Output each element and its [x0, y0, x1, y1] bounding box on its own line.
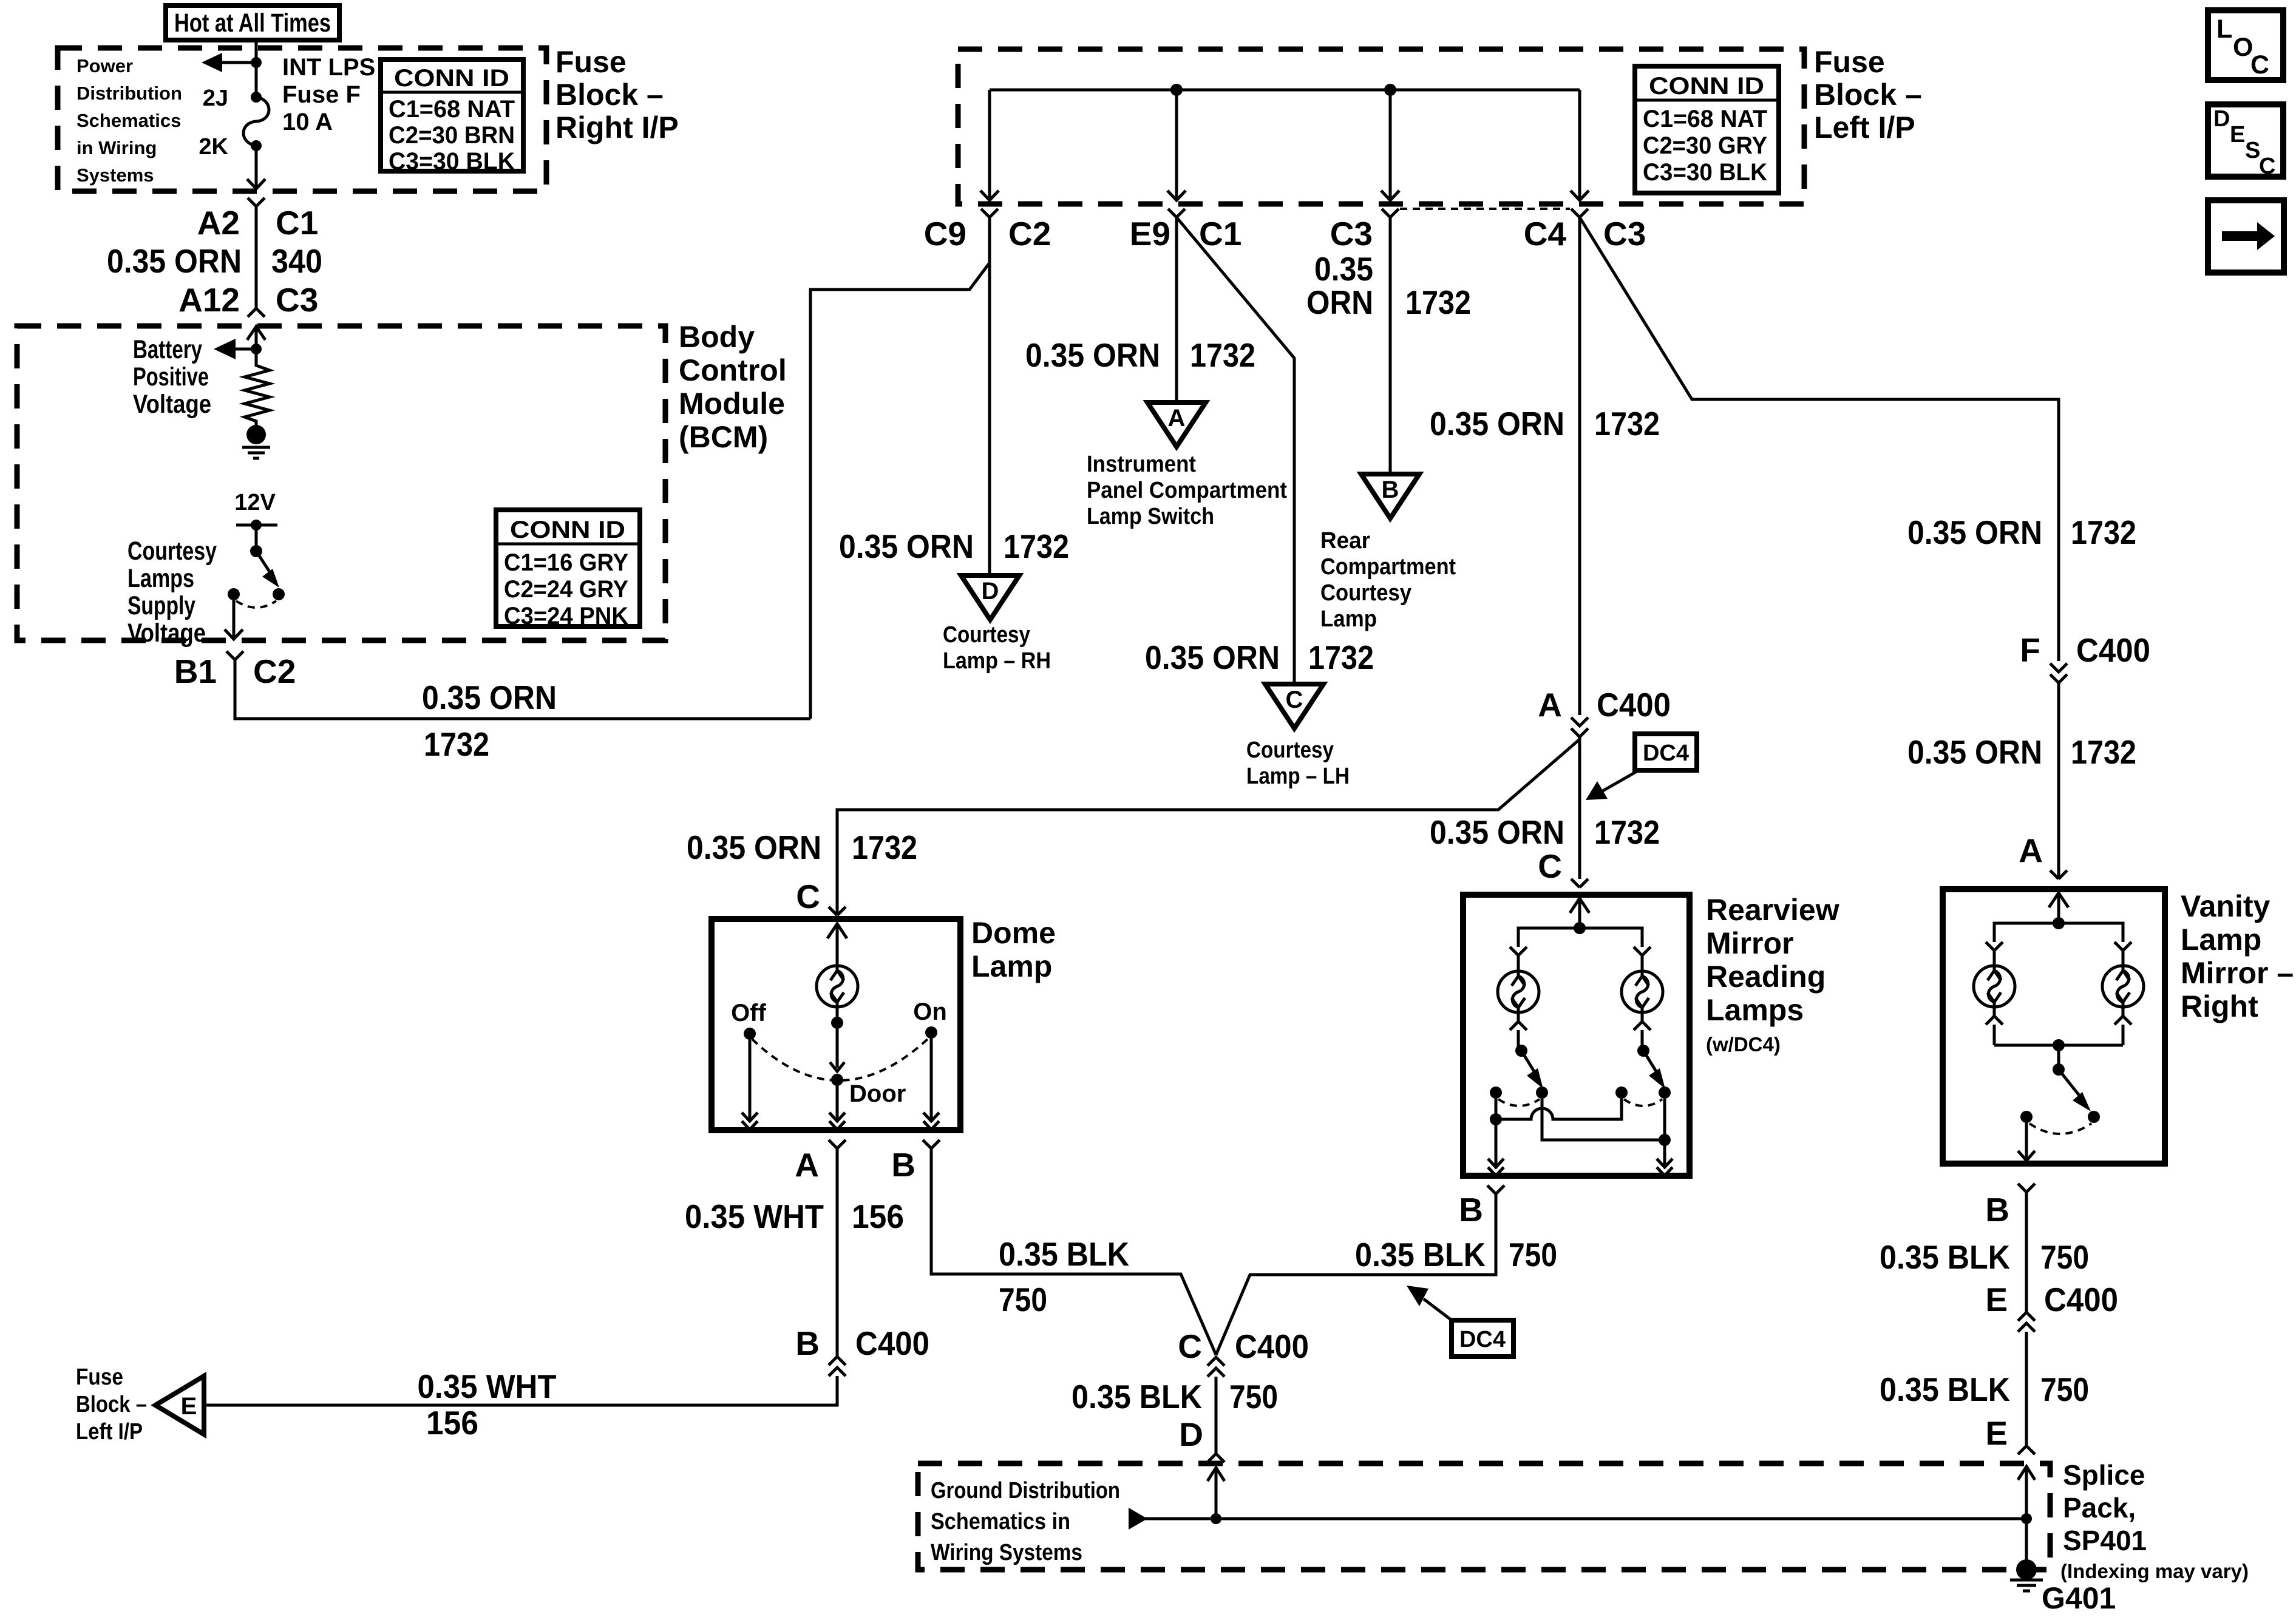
wire: arrowhead entering BCM [247, 327, 265, 349]
connector fork into dome lamp [829, 907, 846, 915]
Vanity Lamp Mirror Right box [1943, 889, 2165, 1164]
wire: fuse output down to box edge with arrowhead [247, 146, 265, 189]
wire: vanity B down to E C400 [2025, 1192, 2028, 1312]
svg-text:Panel Compartment: Panel Compartment [1087, 478, 1287, 503]
svg-text:Distribution: Distribution [76, 83, 182, 104]
svg-text:C2=24 GRY: C2=24 GRY [504, 576, 628, 603]
connector C3 pin C4: fork [1571, 209, 1588, 217]
lamp bulb (vanity left) [1974, 966, 2015, 1007]
svg-text:750: 750 [999, 1281, 1047, 1318]
node: junction E wire to ground bus [2021, 1513, 2032, 1524]
lamp bulb (rearview left) [1498, 971, 1539, 1012]
connector fork left bulb [1986, 942, 2003, 951]
wire: F C400 down to vanity A [2057, 683, 2060, 879]
svg-text:Wiring Systems: Wiring Systems [931, 1540, 1082, 1565]
svg-text:C: C [2259, 154, 2275, 179]
triangle connector E (fuse block left) [155, 1376, 204, 1434]
wire: ground bus with source arrow [1129, 1508, 2026, 1530]
svg-text:Lamp – LH: Lamp – LH [1246, 764, 1350, 789]
connector fork pin B below rearview [1487, 1185, 1504, 1194]
connector C400 pin C: double chevron up [1207, 1357, 1224, 1377]
wire: Door contact to box edge with double chevron [829, 1080, 845, 1130]
svg-text:750: 750 [1229, 1378, 1278, 1415]
wire: below A C400 down to rearview C [1578, 737, 1581, 879]
svg-text:0.35 BLK: 0.35 BLK [1880, 1371, 2010, 1408]
svg-text:B: B [891, 1146, 915, 1184]
svg-text:10 A: 10 A [282, 109, 333, 135]
node: bus junction at C3 drop [1384, 84, 1396, 96]
Rearview Mirror Reading Lamps box [1463, 895, 1690, 1176]
svg-text:0.35 ORN: 0.35 ORN [839, 527, 974, 565]
label: Splice Pack SP401 [2060, 1459, 2249, 1582]
double chevron at box edge (left B) [1488, 1159, 1504, 1176]
svg-text:Compartment: Compartment [1320, 554, 1456, 580]
switch contacts (right) [1615, 1086, 1628, 1099]
svg-text:C: C [1538, 847, 1562, 885]
DC4 callout box (upper) [1586, 734, 1697, 800]
node: Off contact [744, 1028, 756, 1040]
svg-text:Module: Module [679, 387, 785, 421]
connector fork below right bulb [1634, 1012, 1651, 1051]
svg-text:C1=16 GRY: C1=16 GRY [504, 549, 628, 576]
wire: drop to C9 with arrowhead [980, 90, 999, 200]
wire: branch diagonal to dome lamp feed [837, 739, 1580, 915]
connector fork left lamp [1510, 947, 1527, 955]
wire: drop to E9 with arrowhead [1167, 90, 1186, 200]
svg-text:Hot at All Times: Hot at All Times [174, 8, 331, 38]
connector fork below right bulb [2114, 1007, 2131, 1045]
wire: branch arrow to Power Distribution Schematics [202, 53, 256, 72]
wire: down to switch pole [2057, 1045, 2060, 1070]
svg-text:Control: Control [679, 353, 787, 387]
svg-text:E9: E9 [1130, 215, 1170, 253]
dashed travel arc [236, 601, 276, 608]
node: junction D wire to ground bus [1211, 1513, 1221, 1524]
svg-text:Courtesy: Courtesy [1246, 737, 1334, 763]
node: junction on B wire [1490, 1113, 1502, 1125]
svg-text:C400: C400 [1597, 686, 1671, 724]
label: Fuse Block - Left I/P [1814, 45, 1922, 144]
connector C3 pin A12: fork above BCM [248, 308, 265, 317]
connector fork right lamp [1634, 947, 1651, 955]
svg-text:E: E [1985, 1281, 2008, 1318]
svg-text:ORN: ORN [1306, 283, 1373, 321]
svg-text:CONN ID: CONN ID [394, 65, 509, 92]
svg-text:Block –: Block – [1814, 78, 1922, 112]
note: Power Distribution Schematics in Wiring Systems [76, 55, 182, 186]
svg-text:1732: 1732 [1308, 639, 1374, 676]
svg-text:D: D [1179, 1415, 1203, 1453]
wire: from Hot at All Times down into fuse block [255, 40, 258, 97]
Fuse Block Right I/P dashed box [58, 48, 546, 191]
svg-text:Power: Power [76, 55, 133, 76]
svg-text:1732: 1732 [2071, 514, 2136, 551]
svg-text:12V: 12V [234, 490, 276, 515]
svg-text:Pack,: Pack, [2063, 1492, 2136, 1524]
svg-text:750: 750 [1509, 1236, 1557, 1273]
svg-text:340: 340 [271, 242, 322, 280]
connector fork pin A below dome [829, 1140, 846, 1148]
dashed travel arc [1624, 1099, 1662, 1106]
svg-text:Left I/P: Left I/P [1814, 110, 1915, 144]
triangle connector C [1265, 684, 1323, 728]
thin dashed connector body line between C3 and C4 [1400, 208, 1570, 210]
switch arm with arrowhead [1521, 1051, 1543, 1089]
svg-text:B: B [1459, 1191, 1483, 1229]
svg-text:Mirror –: Mirror – [2181, 956, 2294, 990]
svg-text:DC4: DC4 [1643, 741, 1689, 766]
svg-text:0.35 ORN: 0.35 ORN [1430, 813, 1564, 851]
svg-text:Rearview: Rearview [1706, 893, 1839, 927]
wire: bulb to junction [836, 1007, 839, 1068]
triangle connector D [961, 575, 1019, 620]
svg-text:D: D [2213, 106, 2230, 132]
note: Instrument Panel Compartment Lamp Switch [1087, 452, 1287, 529]
wire: into splice pack with arrowhead [2018, 1466, 2035, 1569]
svg-text:INT LPS: INT LPS [282, 54, 375, 81]
connector pin C3: fork [1382, 209, 1399, 217]
svg-text:A: A [1168, 405, 1186, 432]
node: Door contact [831, 1074, 843, 1086]
svg-text:Schematics in: Schematics in [931, 1509, 1070, 1534]
svg-text:0.35 ORN: 0.35 ORN [422, 679, 557, 716]
wire stub [2122, 951, 2125, 966]
arrowhead to door contact [830, 1062, 844, 1071]
wire: right contact down to box edge [1663, 1099, 1666, 1168]
svg-text:A: A [2019, 832, 2043, 869]
svg-text:C: C [1286, 686, 1303, 713]
connector fork pin D at ground box [1207, 1454, 1224, 1462]
connector fork below left bulb [1986, 1007, 2003, 1045]
wire: C9 down to triangle D [988, 217, 991, 573]
svg-text:Block –: Block – [76, 1392, 147, 1417]
wire stub [1993, 951, 1996, 966]
wire: down and left to fuse block E triangle [205, 1376, 837, 1405]
svg-text:B1: B1 [174, 653, 217, 690]
svg-text:Schematics: Schematics [76, 110, 181, 131]
note: Courtesy Lamps Supply Voltage [127, 537, 217, 648]
wire: switch output down with arrowhead to BCM edge [225, 600, 243, 639]
svg-text:Off: Off [731, 1000, 766, 1026]
double chevron at box edge (right) [1657, 1159, 1673, 1176]
svg-text:A12: A12 [178, 281, 240, 319]
svg-text:SP401: SP401 [2063, 1525, 2147, 1556]
Body Control Module dashed box [17, 326, 665, 640]
svg-text:Fuse: Fuse [76, 1364, 123, 1390]
svg-text:C3: C3 [1603, 215, 1646, 253]
wire: bulbs common bottom [1994, 1044, 2123, 1047]
note: Battery Positive Voltage [133, 335, 211, 419]
svg-text:G401: G401 [2042, 1581, 2116, 1615]
wire: entering dome lamp with arrowhead [827, 924, 847, 966]
note: Courtesy Lamp - LH [1246, 737, 1350, 789]
lamp bulb (dome) [817, 966, 858, 1007]
svg-text:Dome: Dome [971, 916, 1056, 950]
wire: split to both lamp branches [1518, 928, 1642, 947]
svg-text:C9: C9 [924, 215, 966, 253]
wire: riser up to C9 connector [810, 263, 990, 719]
svg-text:B: B [1382, 476, 1399, 503]
connector fork pin E at splice pack [2018, 1446, 2035, 1454]
svg-text:CONN ID: CONN ID [510, 517, 625, 543]
dashed travel arc [2029, 1124, 2091, 1134]
svg-text:Courtesy: Courtesy [127, 537, 217, 566]
connector fork into rearview box [1571, 879, 1588, 887]
wire: B1 down and right to BCM riser [235, 660, 810, 719]
svg-text:(BCM): (BCM) [679, 420, 768, 454]
dashed selector arc Off-Door-On [752, 1038, 929, 1080]
svg-text:Voltage: Voltage [127, 619, 206, 648]
svg-text:0.35 WHT: 0.35 WHT [685, 1198, 824, 1235]
resistor (BCM internal pull-up) [245, 349, 270, 425]
svg-text:C3=30 BLK: C3=30 BLK [389, 148, 515, 175]
wire: into ground box with arrowhead [1207, 1468, 1224, 1517]
svg-text:Right: Right [2181, 989, 2258, 1023]
svg-text:B: B [795, 1324, 820, 1362]
svg-text:Fuse: Fuse [1814, 45, 1885, 79]
svg-text:1732: 1732 [2071, 733, 2136, 771]
svg-text:Lamps: Lamps [1706, 993, 1804, 1027]
12V supply bar [236, 520, 277, 551]
svg-text:(Indexing may vary): (Indexing may vary) [2060, 1560, 2249, 1582]
wire: A2 to A12 connector wire [255, 206, 258, 308]
svg-text:C: C [1178, 1327, 1202, 1365]
svg-text:D: D [982, 578, 999, 605]
CONN ID table (BCM) [496, 510, 640, 629]
svg-text:0.35 ORN: 0.35 ORN [687, 829, 821, 866]
svg-text:Positive: Positive [133, 362, 209, 392]
note: Courtesy Lamp - RH [943, 622, 1051, 674]
svg-text:1732: 1732 [1190, 336, 1255, 374]
svg-text:Courtesy: Courtesy [1320, 580, 1411, 606]
node: junction below bulb [831, 1017, 843, 1029]
svg-text:0.35 ORN: 0.35 ORN [1145, 639, 1280, 676]
wire: C3 down to triangle B [1389, 217, 1392, 472]
wire: On contact to box edge with double chevron [923, 1039, 939, 1130]
svg-text:C3=30 BLK: C3=30 BLK [1643, 159, 1767, 186]
svg-text:C2: C2 [253, 653, 296, 690]
connector fork pin B below dome [923, 1140, 940, 1148]
wire: entering vanity box with arrowhead [2049, 893, 2068, 923]
svg-text:0.35 BLK: 0.35 BLK [1880, 1238, 2010, 1276]
svg-text:0.35 BLK: 0.35 BLK [1355, 1236, 1486, 1273]
svg-text:0.35 ORN: 0.35 ORN [1025, 336, 1160, 374]
svg-text:Lamp: Lamp [971, 949, 1052, 983]
svg-text:Body: Body [679, 320, 755, 354]
svg-text:E: E [181, 1393, 197, 1420]
DESC legend box [2208, 104, 2283, 179]
fuse F INT LPS symbol [243, 92, 269, 151]
label: Fuse Block - Right I/P [555, 45, 679, 144]
svg-text:C3: C3 [1330, 215, 1373, 253]
svg-text:Right I/P: Right I/P [555, 110, 679, 144]
lamp bulb (rearview right) [1622, 971, 1663, 1012]
note: Fuse Block - Left I/P [76, 1364, 147, 1445]
svg-text:1732: 1732 [1594, 405, 1660, 442]
svg-text:Lamp Switch: Lamp Switch [1087, 504, 1214, 529]
svg-text:Instrument: Instrument [1087, 452, 1196, 477]
svg-text:Courtesy: Courtesy [943, 622, 1030, 648]
switch pole (vanity) [2053, 1063, 2065, 1076]
svg-text:Reading: Reading [1706, 960, 1826, 994]
connector C400 pin B: double chevron up [829, 1357, 846, 1376]
svg-text:C: C [2250, 50, 2269, 80]
switch arm with arrowhead [256, 551, 279, 588]
svg-text:C3: C3 [276, 281, 318, 319]
svg-text:A: A [795, 1146, 819, 1184]
svg-text:C1=68 NAT: C1=68 NAT [1643, 106, 1767, 132]
svg-text:Door: Door [849, 1080, 906, 1107]
svg-text:2K: 2K [199, 134, 228, 160]
svg-text:Block –: Block – [555, 78, 664, 112]
svg-text:156: 156 [852, 1198, 904, 1235]
svg-text:E: E [2230, 122, 2245, 147]
svg-text:156: 156 [426, 1404, 478, 1442]
svg-text:Lamp – RH: Lamp – RH [943, 648, 1051, 674]
svg-text:C2=30 GRY: C2=30 GRY [1643, 132, 1767, 159]
Dome Lamp box [712, 919, 960, 1130]
svg-text:Vanity: Vanity [2181, 889, 2270, 923]
svg-text:Ground Distribution: Ground Distribution [931, 1478, 1120, 1503]
wire: left contact down with arrow to box edge [2018, 1123, 2035, 1161]
wire: dome B down then right [931, 1148, 1216, 1355]
switch arm with arrowhead [2059, 1070, 2091, 1111]
wire: left contact down to junction [1495, 1093, 1498, 1168]
connector C1 pin E9: fork [1168, 209, 1185, 217]
svg-text:0.35 BLK: 0.35 BLK [999, 1235, 1129, 1273]
label: Body Control Module (BCM) [679, 320, 787, 454]
switch contacts (vanity) [2020, 1111, 2033, 1123]
svg-text:C4: C4 [1524, 215, 1567, 253]
connector fork into vanity box [2050, 870, 2067, 879]
switch (courtesy lamps) pole [250, 545, 262, 557]
node: On contact [925, 1026, 937, 1039]
svg-text:A2: A2 [197, 204, 240, 242]
wire: C3 diagonal over to vanity feed [1580, 217, 2059, 661]
svg-text:C400: C400 [2044, 1281, 2118, 1318]
svg-text:Rear: Rear [1320, 528, 1370, 554]
svg-text:0.35 ORN: 0.35 ORN [1907, 514, 2042, 551]
svg-text:B: B [1985, 1191, 2009, 1229]
ground symbol [242, 447, 270, 458]
svg-text:On: On [913, 998, 947, 1025]
ground dot inside BCM [246, 425, 266, 444]
svg-text:(w/DC4): (w/DC4) [1706, 1033, 1781, 1056]
svg-text:1732: 1732 [1004, 527, 1069, 565]
node: bus junction at E9 drop [1170, 84, 1183, 96]
wire: arrow to Battery Positive Voltage [214, 339, 256, 359]
svg-text:CONN ID: CONN ID [1649, 73, 1764, 100]
svg-text:750: 750 [2040, 1238, 2089, 1276]
svg-text:Systems: Systems [76, 164, 154, 186]
wire: fuse block bus [990, 89, 1580, 92]
connector fork below left bulb [1510, 1012, 1527, 1051]
svg-text:C400: C400 [1235, 1327, 1309, 1365]
wire: E C400 down to splice pack [2025, 1332, 2028, 1446]
switch arm with arrowhead [1643, 1051, 1665, 1089]
node: split junction [1574, 922, 1586, 934]
wire: entering rearview box with arrowhead [1570, 898, 1589, 928]
svg-text:750: 750 [2040, 1371, 2089, 1408]
connector fork pin B below vanity [2018, 1184, 2035, 1192]
connector C400 pin F: double chevron [2050, 663, 2067, 683]
splice ground G401 [2010, 1559, 2043, 1591]
label: Dome Lamp [971, 916, 1056, 983]
wire: left arm contact down and right [1542, 1099, 1665, 1140]
dashed travel arc [1498, 1099, 1540, 1106]
svg-text:Supply: Supply [127, 591, 195, 620]
node: battery feed junction [251, 344, 262, 354]
svg-text:0.35 ORN: 0.35 ORN [107, 242, 242, 280]
connector fork right bulb [2114, 942, 2131, 951]
wire: C C400 down to ground distribution [1215, 1377, 1218, 1454]
wire stub [1517, 955, 1520, 971]
connector C1 pin A2: fork below fuse block [248, 198, 265, 206]
node: split junction [2053, 917, 2065, 929]
wire: crossover with hop to right switch contact [1496, 1099, 1622, 1119]
CONN ID table (fuse block right) [381, 59, 523, 175]
Ground Distribution dashed box [918, 1463, 2050, 1570]
connector C2 pin C9: fork [981, 209, 998, 217]
svg-text:Battery: Battery [133, 335, 202, 364]
svg-text:0.35 ORN: 0.35 ORN [1907, 733, 2042, 771]
svg-text:1732: 1732 [1594, 813, 1660, 851]
svg-text:C400: C400 [2076, 631, 2150, 669]
node: common junction [2053, 1039, 2065, 1051]
svg-text:C3=24 PNK: C3=24 PNK [504, 603, 628, 629]
svg-text:A: A [1538, 686, 1562, 724]
wire: C1 diagonal down to Courtesy Lamp LH [1177, 217, 1294, 682]
note: Ground Distribution Schematics in Wiring Systems [931, 1478, 1120, 1565]
switch contacts [228, 588, 240, 600]
wire stub [1641, 955, 1644, 971]
Hot at All Times box [166, 5, 339, 40]
svg-text:Fuse F: Fuse F [282, 81, 361, 108]
node: junction right drop [1659, 1134, 1671, 1146]
next-page arrow box [2208, 200, 2284, 273]
DC4 callout box (lower) [1407, 1286, 1513, 1357]
CONN ID table (fuse block left) [1635, 66, 1779, 193]
svg-text:2J: 2J [203, 86, 228, 111]
svg-text:0.35 WHT: 0.35 WHT [418, 1368, 557, 1405]
svg-text:0.35 BLK: 0.35 BLK [1072, 1378, 1202, 1415]
svg-text:C1=68 NAT: C1=68 NAT [389, 96, 515, 123]
svg-text:DC4: DC4 [1459, 1327, 1506, 1352]
svg-text:C1: C1 [276, 204, 318, 242]
svg-text:Fuse: Fuse [555, 45, 627, 79]
svg-text:Mirror: Mirror [1706, 926, 1793, 960]
svg-text:Left I/P: Left I/P [76, 1419, 143, 1445]
triangle connector A [1147, 402, 1206, 447]
label: Vanity Lamp Mirror - Right [2181, 889, 2294, 1023]
connector C2 pin B1: fork below BCM [226, 651, 243, 660]
Fuse Block Left I/P dashed box [958, 49, 1804, 204]
svg-text:C400: C400 [855, 1324, 929, 1362]
svg-text:F: F [2020, 631, 2040, 669]
svg-text:1732: 1732 [852, 829, 917, 866]
svg-text:C: C [796, 878, 820, 915]
lamp bulb (vanity right) [2102, 966, 2144, 1007]
switch pole (left reading lamp) [1515, 1045, 1527, 1057]
wire: C4 down to A C400 [1578, 217, 1581, 715]
wire: dome A down to B C400 [836, 1148, 839, 1357]
svg-text:Lamp: Lamp [2181, 923, 2261, 957]
wire: rearview B down then left [1216, 1194, 1496, 1355]
connector C400 pin A: double chevron [1571, 717, 1588, 737]
LOC legend box [2208, 10, 2283, 80]
label: Rearview Mirror Reading Lamps (w/DC4) [1706, 893, 1839, 1056]
svg-text:Lamp: Lamp [1320, 606, 1377, 632]
